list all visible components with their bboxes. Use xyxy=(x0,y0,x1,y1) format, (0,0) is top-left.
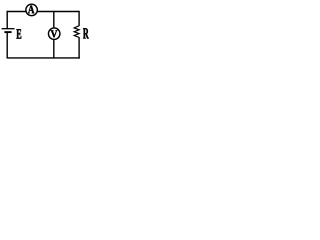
label E xyxy=(16,29,21,38)
wire top-right segment (ammeter to top-right corner) xyxy=(37,11,79,13)
wire right vertical upper (corner to resistor) xyxy=(78,11,80,26)
wire left vertical lower (battery to bottom corner) xyxy=(6,32,8,58)
wire right vertical lower (resistor to bottom corner) xyxy=(78,37,80,58)
ammeter U=A circle xyxy=(26,4,37,16)
wire top-left segment (corner to ammeter) xyxy=(7,11,26,13)
wire voltmeter branch lower (voltmeter to bottom wire) xyxy=(53,40,55,59)
wire voltmeter branch upper (T-junction to voltmeter) xyxy=(53,11,55,28)
voltmeter circle xyxy=(48,28,60,40)
battery E long plate xyxy=(2,28,15,30)
wire left vertical upper (corner to battery) xyxy=(6,11,8,29)
resistor R zigzag xyxy=(74,26,79,38)
battery E short plate xyxy=(4,31,11,33)
background xyxy=(0,0,97,66)
wire bottom (bottom-left corner to bottom-right corner) xyxy=(7,57,80,59)
label R xyxy=(83,28,89,38)
label V xyxy=(51,30,58,37)
label A xyxy=(28,6,34,14)
